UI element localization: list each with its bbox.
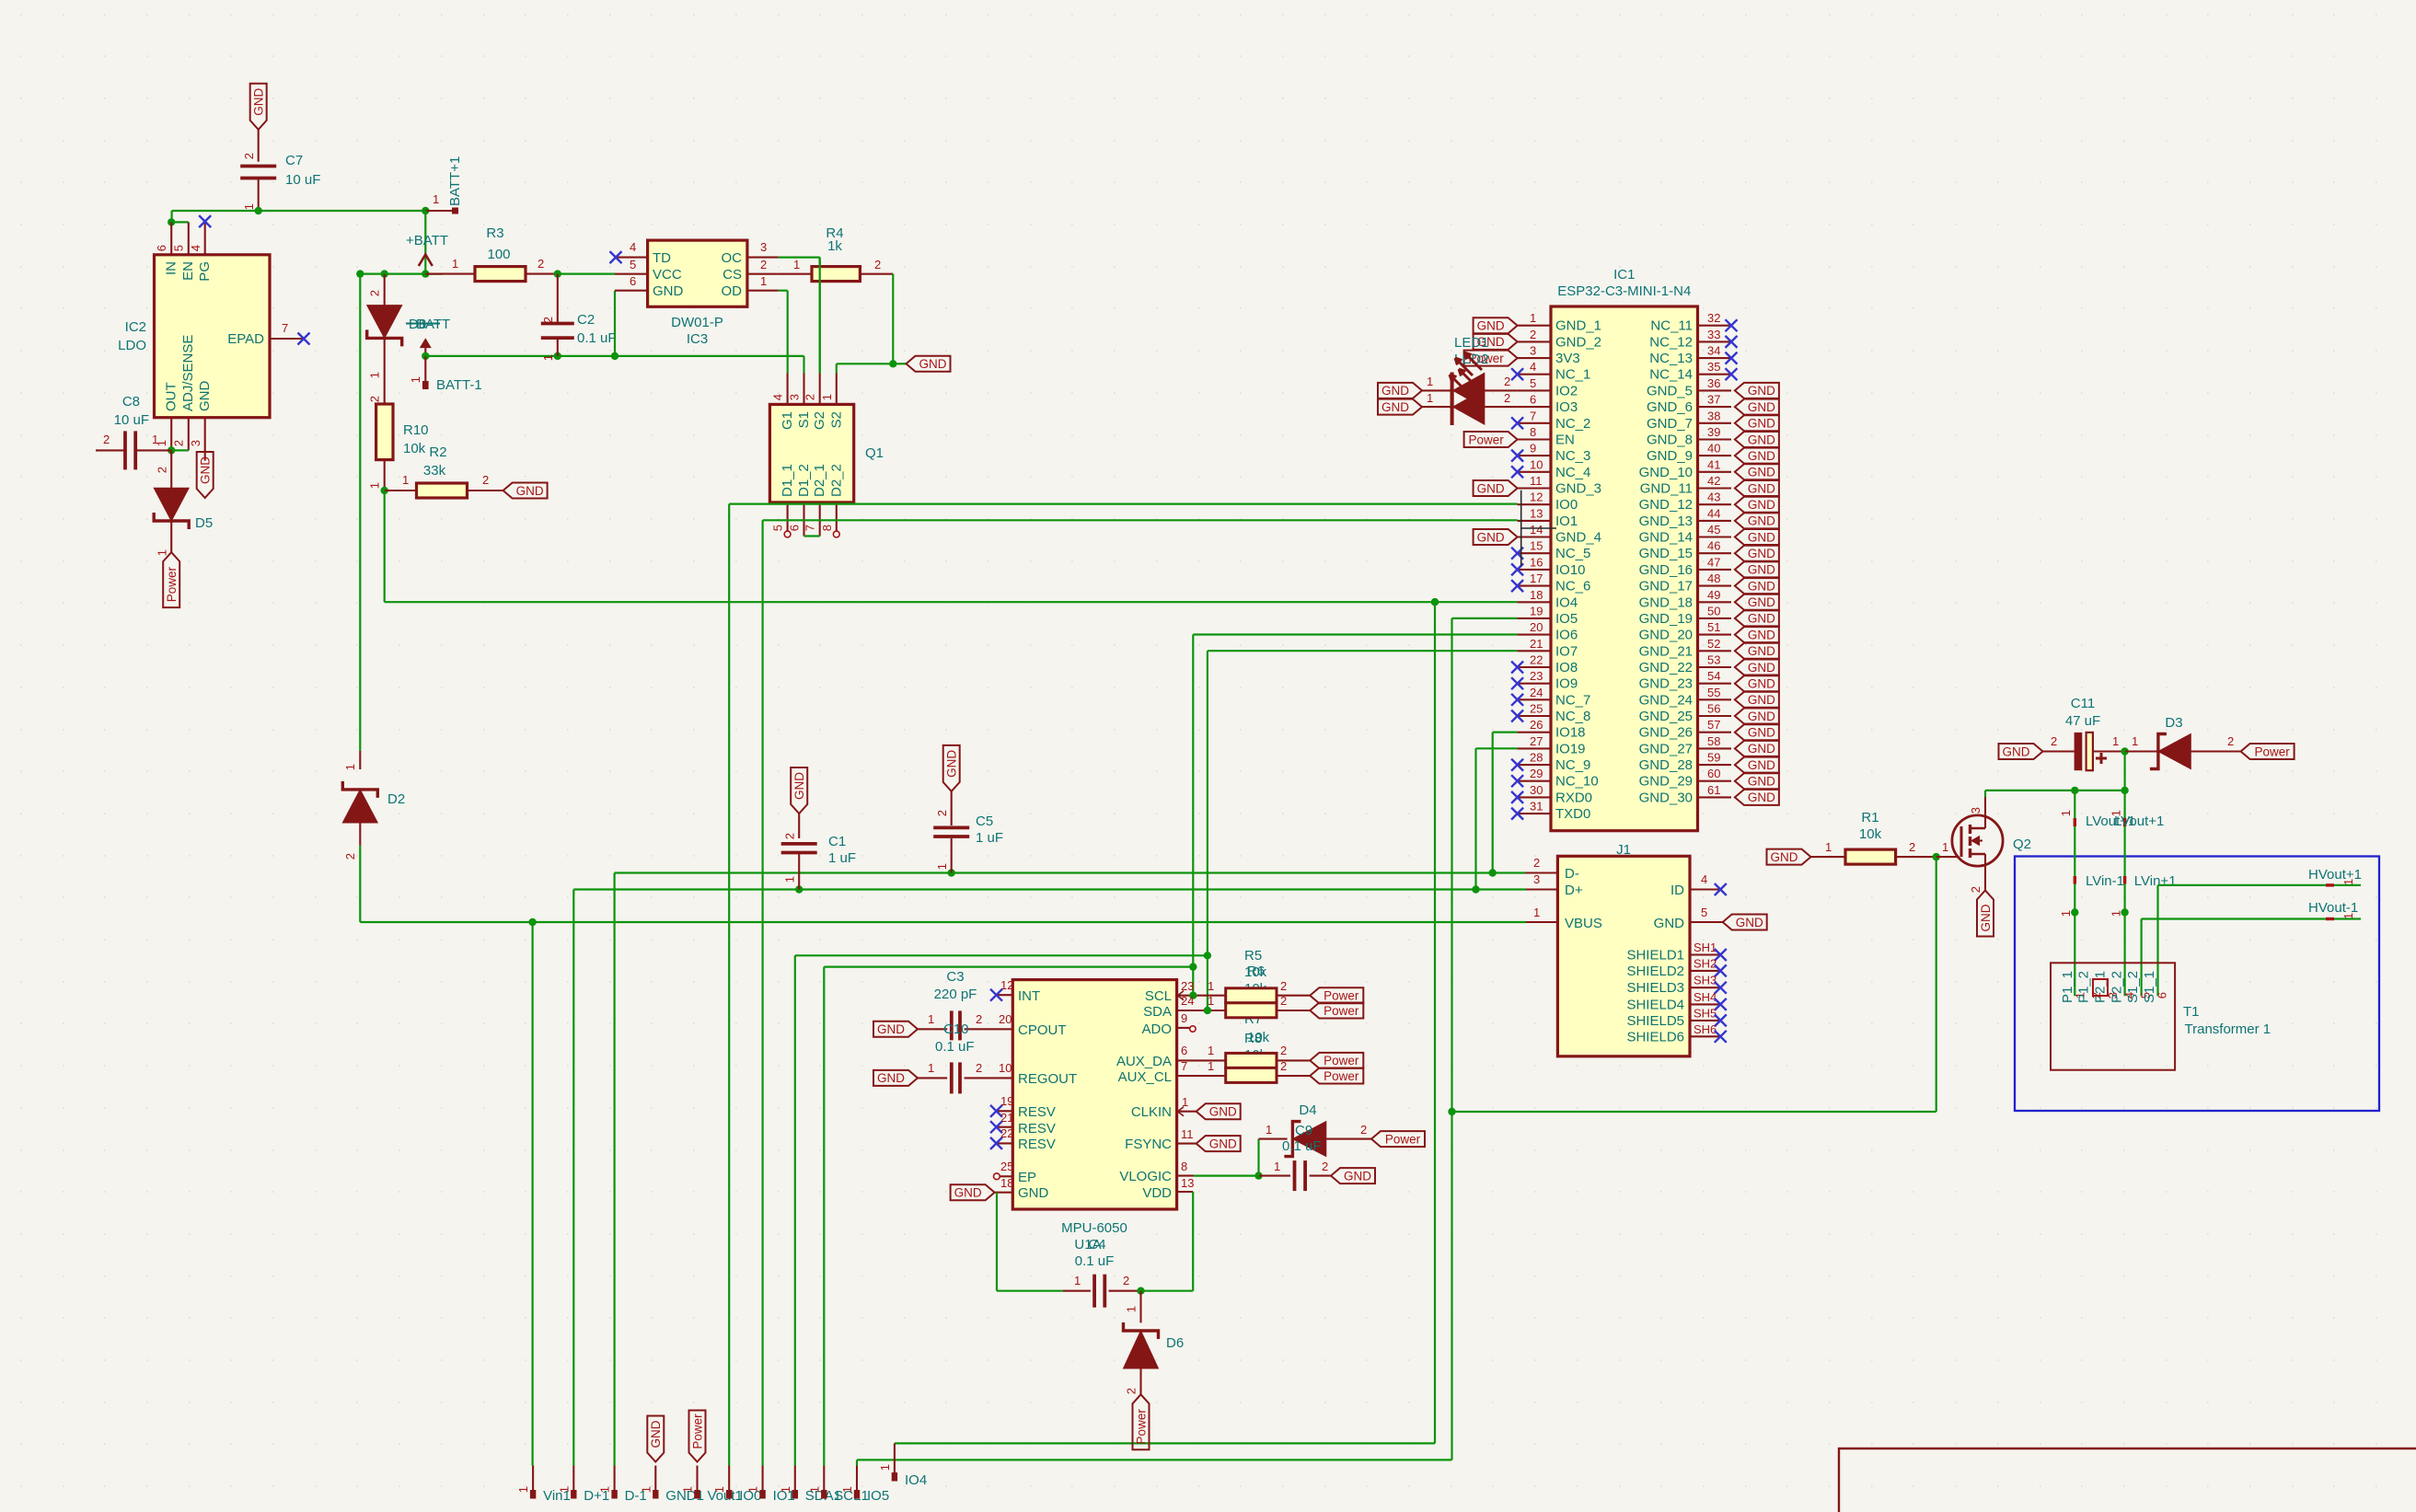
svg-text:Power: Power [1324, 1004, 1359, 1018]
Q2 pin2 source [1984, 854, 1986, 891]
svg-text:39: 39 [1707, 425, 1720, 439]
svg-text:2: 2 [976, 1061, 982, 1075]
IC3 pin2 CS stub [747, 273, 779, 275]
svg-text:GND_11: GND_11 [1640, 481, 1693, 497]
svg-text:GND: GND [1748, 710, 1775, 723]
power flag GND (MPU pin18) [951, 1184, 995, 1200]
svg-text:18: 18 [1000, 1176, 1013, 1190]
junction LVout+1 left [2071, 787, 2078, 794]
J1 pin SH6 SHIELD6 [1690, 1035, 1720, 1037]
power flag GND (IC1 pin1) [1474, 317, 1518, 333]
svg-text:11: 11 [1181, 1127, 1194, 1141]
svg-text:D2_2: D2_2 [828, 464, 844, 497]
IC1 pin 45 GND_14 [1698, 536, 1732, 537]
power flag GND (IC1 pin 46) [1735, 546, 1779, 561]
svg-text:NC_7: NC_7 [1555, 692, 1590, 708]
J1 pin SH4 SHIELD4 [1690, 1003, 1720, 1005]
svg-text:IO3: IO3 [1555, 399, 1578, 415]
title block border [1839, 1449, 2416, 1512]
IC1 pin 17 NC_6 [1518, 585, 1551, 587]
svg-text:1: 1 [1427, 391, 1433, 405]
svg-text:D1_1: D1_1 [780, 464, 795, 497]
svg-text:IO5: IO5 [1555, 611, 1578, 627]
J1 pin1 VBUS [1526, 921, 1557, 923]
svg-text:NC_14: NC_14 [1649, 367, 1693, 383]
svg-text:D1_2: D1_2 [796, 464, 812, 497]
svg-text:4: 4 [1701, 872, 1707, 886]
IC1 pin 57 GND_26 [1698, 732, 1732, 733]
svg-text:34: 34 [1707, 344, 1720, 358]
svg-text:22: 22 [1530, 653, 1543, 667]
svg-text:1: 1 [840, 1486, 854, 1493]
wire BATT- rail [425, 355, 803, 357]
svg-text:0.1 uF: 0.1 uF [577, 330, 617, 346]
svg-text:GND: GND [197, 381, 213, 412]
svg-text:SH3: SH3 [1694, 974, 1717, 987]
wire R4 pin2 to GND [892, 274, 894, 364]
svg-text:GND: GND [252, 88, 266, 116]
svg-text:1: 1 [242, 203, 256, 210]
svg-text:35: 35 [1707, 360, 1720, 374]
cursor crosshair artifact [1520, 491, 1522, 567]
svg-text:1: 1 [452, 257, 458, 271]
svg-text:GND: GND [1477, 481, 1505, 495]
svg-text:2: 2 [368, 290, 382, 296]
svg-text:2: 2 [1360, 1123, 1367, 1137]
svg-text:IO9: IO9 [1555, 676, 1578, 692]
svg-text:SH4: SH4 [1694, 990, 1717, 1004]
IC3 pin3 OC stub [747, 257, 779, 259]
diode D8 (zener, +BATT to R10) [384, 274, 386, 306]
junction C7/bus [255, 207, 262, 214]
LED LED2 [1378, 399, 1422, 415]
svg-text:43: 43 [1707, 491, 1720, 504]
svg-text:R5: R5 [1244, 948, 1262, 964]
power flag GND (IC1 pin 61) [1735, 790, 1779, 805]
svg-text:2: 2 [803, 394, 817, 400]
svg-text:GND_2: GND_2 [1555, 334, 1601, 350]
svg-text:R3: R3 [486, 225, 503, 241]
MPU pin12 INT with no-connect [997, 994, 1013, 996]
MPU pin8 VLOGIC [1177, 1175, 1195, 1177]
svg-text:GND_1: GND_1 [1555, 318, 1601, 334]
MPU pin21 RESV no-connect [997, 1126, 1013, 1128]
svg-text:VLOGIC: VLOGIC [1119, 1169, 1172, 1184]
IC1 pin 29 NC_10 [1518, 780, 1551, 782]
svg-text:PG: PG [197, 261, 213, 282]
power flag GND (Q1 S2) [907, 356, 951, 372]
wire OC to Q1 G2 [779, 257, 820, 259]
IC U1 MPU-6050 body [1012, 980, 1176, 1209]
junction SCL1 [1189, 963, 1196, 970]
svg-text:1: 1 [2059, 810, 2073, 816]
power flag GND (IC1 pin 39) [1735, 432, 1779, 447]
svg-text:IO6: IO6 [1555, 628, 1578, 643]
Q1 pin7 D2_1 stub [819, 502, 821, 537]
power flag GND (C11) [1999, 744, 2043, 759]
svg-text:G2: G2 [812, 411, 827, 430]
svg-text:GND_29: GND_29 [1639, 774, 1693, 790]
capacitor C5 [951, 791, 953, 825]
svg-text:GND_22: GND_22 [1639, 660, 1693, 675]
svg-text:59: 59 [1707, 751, 1720, 765]
MPU pin6 AUX_DA [1177, 1059, 1226, 1061]
IC1 pin 54 GND_23 [1698, 683, 1732, 685]
IC1 pin 34 NC_13 [1698, 357, 1732, 359]
svg-text:2: 2 [1280, 979, 1287, 993]
IC1 pin 48 GND_17 [1698, 585, 1732, 587]
svg-text:GND_8: GND_8 [1647, 433, 1693, 448]
node BATT-1 (hierarchical pin) [420, 338, 432, 348]
svg-text:1: 1 [516, 1486, 530, 1493]
Q1 pin4 G1 stub [787, 374, 789, 405]
svg-text:1: 1 [2341, 879, 2355, 885]
svg-text:GND: GND [1748, 417, 1775, 431]
MPU pin9 ADO [1177, 1027, 1190, 1029]
J1 pin4 ID with no-connect [1690, 888, 1720, 890]
svg-text:7: 7 [1530, 409, 1536, 422]
svg-text:57: 57 [1707, 718, 1720, 732]
power flag GND (IC1 pin2) + LED1 ref [1474, 334, 1518, 350]
IC1 pin 52 GND_21 [1698, 650, 1732, 652]
wire GND pin18 down to C4 [996, 1193, 998, 1291]
IC1 pin 47 GND_16 [1698, 569, 1732, 571]
svg-text:8: 8 [1530, 425, 1536, 439]
svg-text:55: 55 [1707, 686, 1720, 699]
svg-text:1: 1 [557, 1486, 571, 1493]
wire VLOGIC [1194, 1174, 1258, 1176]
svg-text:GND: GND [1748, 693, 1775, 707]
svg-text:GND: GND [945, 750, 959, 778]
wire IO18 net (to USB D-) [1493, 731, 1518, 733]
svg-text:9: 9 [1530, 442, 1536, 456]
MPU pin1 CLKIN [1177, 1111, 1196, 1113]
Q1 pin3 S1 stub [803, 374, 804, 405]
svg-text:R6: R6 [1247, 964, 1265, 979]
svg-text:GND: GND [1209, 1105, 1237, 1119]
power flag GND (IC1 pin 42) [1735, 480, 1779, 496]
IC1 pin 14 GND_4 [1518, 536, 1551, 537]
svg-text:D2_1: D2_1 [812, 464, 827, 497]
svg-text:D5: D5 [195, 515, 213, 531]
svg-text:1: 1 [820, 394, 834, 400]
IC1 pin 53 GND_22 [1698, 666, 1732, 668]
svg-text:C1: C1 [828, 834, 846, 849]
Q1 pin1 S2 stub [836, 374, 838, 405]
IC1 pin 19 IO5 [1518, 617, 1551, 619]
svg-text:Q2: Q2 [2013, 837, 2031, 852]
IC3 pin1 OD stub [747, 290, 779, 292]
svg-text:EN: EN [1555, 433, 1575, 448]
svg-text:2: 2 [783, 833, 797, 839]
svg-text:7: 7 [282, 321, 288, 335]
IC1 pin 8 EN [1518, 438, 1551, 440]
svg-text:1: 1 [935, 863, 949, 870]
svg-text:EN: EN [180, 261, 196, 281]
IC1 pin 15 NC_5 [1518, 552, 1551, 554]
power flag Power (D3) [2241, 744, 2295, 759]
svg-text:1: 1 [1274, 1160, 1280, 1173]
node Vout1 + power flag Power [689, 1411, 706, 1462]
power flag GND (C5) [943, 745, 960, 791]
svg-text:2: 2 [760, 258, 767, 271]
svg-text:3: 3 [189, 440, 202, 446]
svg-text:1: 1 [2132, 734, 2138, 748]
power flag GND (IC1 pin 52) [1735, 643, 1779, 659]
svg-text:GND: GND [1748, 400, 1775, 414]
svg-text:2: 2 [541, 317, 555, 323]
IC2 pin 1 OUT stub [170, 418, 172, 451]
svg-text:50: 50 [1707, 604, 1720, 617]
svg-text:1: 1 [1208, 1059, 1214, 1073]
svg-text:6: 6 [1181, 1044, 1187, 1057]
junction R3/C2/VCC [554, 270, 561, 277]
IC1 pin 60 GND_29 [1698, 780, 1732, 782]
junction LVout+1 right [2121, 787, 2128, 794]
svg-text:BATT+1: BATT+1 [447, 156, 463, 206]
IC1 pin 51 GND_20 [1698, 634, 1732, 636]
svg-text:GND_18: GND_18 [1639, 594, 1693, 610]
svg-text:GND_23: GND_23 [1639, 676, 1693, 692]
svg-text:5: 5 [771, 525, 785, 531]
node D+1 [572, 1466, 574, 1493]
svg-text:OC: OC [722, 250, 743, 266]
junction Vin1/VBUS [528, 918, 536, 926]
power flag GND (IC1 pin 48) [1735, 578, 1779, 594]
svg-text:GND: GND [1748, 466, 1775, 479]
power flag GND (IC1 pin 53) [1735, 660, 1779, 675]
svg-text:CPOUT: CPOUT [1018, 1022, 1067, 1038]
svg-text:NC_6: NC_6 [1555, 579, 1590, 594]
svg-text:MPU-6050: MPU-6050 [1061, 1220, 1127, 1236]
svg-text:1: 1 [1533, 906, 1540, 919]
svg-text:6: 6 [2155, 992, 2168, 998]
svg-text:1: 1 [1427, 375, 1433, 388]
svg-text:GND: GND [1748, 514, 1775, 528]
power flag GND (C1) [791, 768, 807, 814]
svg-text:2: 2 [976, 1012, 982, 1026]
node IO4 [894, 1443, 896, 1472]
svg-text:NC_1: NC_1 [1555, 367, 1590, 383]
svg-text:2: 2 [1280, 1044, 1287, 1057]
svg-text:GND_16: GND_16 [1639, 562, 1693, 578]
svg-text:GND_27: GND_27 [1639, 741, 1693, 756]
svg-text:54: 54 [1707, 669, 1720, 683]
MPU pin22 RESV no-connect [997, 1142, 1013, 1144]
svg-text:32: 32 [1707, 311, 1720, 325]
svg-text:RESV: RESV [1018, 1137, 1056, 1152]
svg-text:GND: GND [877, 1022, 905, 1036]
svg-text:2: 2 [1969, 886, 1983, 893]
power flag GND (R2 pin2) [503, 483, 548, 499]
power flag GND (IC1 pin 57) [1735, 724, 1779, 740]
J1 pin3 D+ [1526, 888, 1557, 890]
svg-text:51: 51 [1707, 620, 1720, 634]
svg-text:53: 53 [1707, 653, 1720, 667]
svg-text:1: 1 [156, 549, 169, 556]
svg-text:1: 1 [433, 192, 439, 206]
svg-text:GND: GND [877, 1071, 905, 1085]
capacitor C7 [240, 165, 276, 168]
svg-text:IO4: IO4 [905, 1472, 927, 1488]
IC1 pin 2 GND_2 [1518, 340, 1551, 342]
svg-text:27: 27 [1530, 734, 1543, 748]
IC1 pin 27 IO19 [1518, 747, 1551, 749]
svg-text:GND: GND [1748, 677, 1775, 691]
power flag GND (IC1 pin 55) [1735, 692, 1779, 708]
MPU pin11 FSYNC [1177, 1143, 1196, 1145]
wire Q2 drain to LVout [1985, 790, 2125, 791]
svg-text:1: 1 [760, 274, 767, 288]
wire LVout+1 left leg [2074, 791, 2075, 996]
svg-text:10 uF: 10 uF [285, 172, 320, 188]
svg-text:NC_8: NC_8 [1555, 709, 1590, 724]
IC1 pin 33 NC_12 [1698, 340, 1732, 342]
svg-text:28: 28 [1530, 751, 1543, 765]
svg-text:GND: GND [1748, 775, 1775, 789]
resistor R10 [376, 404, 393, 460]
svg-text:GND: GND [1771, 850, 1798, 864]
power flag GND (IC1 pin 54) [1735, 675, 1779, 691]
svg-text:AUX_DA: AUX_DA [1116, 1054, 1172, 1069]
IC2 pin 2 ADJ stub [188, 418, 190, 451]
svg-text:GND_21: GND_21 [1639, 643, 1693, 659]
wire bridge pin6-pin5 [171, 221, 189, 223]
svg-text:1: 1 [878, 1464, 892, 1471]
svg-text:VBUS: VBUS [1565, 916, 1602, 931]
svg-text:LED1: LED1 [1454, 335, 1489, 351]
svg-text:5: 5 [630, 258, 636, 271]
svg-text:CS: CS [722, 267, 742, 283]
wire S1 to BATT- rail [803, 356, 804, 374]
svg-text:4: 4 [630, 240, 636, 254]
svg-text:GND: GND [1748, 742, 1775, 756]
IC1 pin 11 GND_3 [1518, 487, 1551, 489]
svg-text:5: 5 [1530, 376, 1536, 390]
svg-text:1: 1 [1530, 311, 1536, 325]
svg-text:CLKIN: CLKIN [1131, 1104, 1172, 1120]
svg-text:1: 1 [2059, 910, 2073, 917]
wire IO5 to Q2 gate [1452, 1111, 1936, 1113]
svg-text:4: 4 [1530, 360, 1536, 374]
power flag GND (top of C7) [250, 84, 267, 130]
svg-text:IC1: IC1 [1613, 267, 1635, 283]
IC1 pin 20 IO6 [1518, 634, 1551, 636]
svg-text:NC_9: NC_9 [1555, 757, 1590, 773]
power flag GND (FSYNC) [1196, 1136, 1241, 1151]
svg-text:SCL: SCL [1145, 988, 1172, 1004]
power flag GND (IC1 pin 36) [1735, 383, 1779, 398]
svg-text:GND_28: GND_28 [1639, 757, 1693, 773]
svg-text:GND_19: GND_19 [1639, 611, 1693, 627]
svg-text:IN: IN [164, 261, 179, 275]
svg-text:Power: Power [690, 1414, 704, 1449]
svg-text:IC3: IC3 [687, 331, 708, 347]
Q1 pin8 D2_2 stub [836, 502, 838, 531]
svg-text:ESP32-C3-MINI-1-N4: ESP32-C3-MINI-1-N4 [1557, 283, 1691, 299]
svg-text:GND_10: GND_10 [1639, 465, 1693, 480]
IC1 pin 36 GND_5 [1698, 389, 1732, 391]
capacitor C1 [798, 814, 800, 838]
wire +BATT rail [360, 273, 443, 275]
capacitor C4 (under MPU) [1063, 1290, 1091, 1292]
svg-text:GND: GND [1748, 384, 1775, 398]
svg-text:2: 2 [242, 153, 256, 159]
svg-text:17: 17 [1530, 571, 1543, 585]
svg-text:GND: GND [954, 1186, 982, 1200]
svg-text:60: 60 [1707, 767, 1720, 780]
svg-text:SH5: SH5 [1694, 1006, 1717, 1020]
wire IO5 net [1452, 617, 1518, 619]
node GND1 + power flag GND [647, 1416, 664, 1462]
wire HVout+1 [2158, 884, 2362, 886]
svg-text:GND_14: GND_14 [1639, 530, 1693, 546]
junction D8 top [381, 270, 388, 277]
svg-text:GND_25: GND_25 [1639, 709, 1693, 724]
svg-text:GND_7: GND_7 [1647, 416, 1693, 432]
svg-text:42: 42 [1707, 474, 1720, 488]
MPU pin18 GND [995, 1192, 1013, 1194]
IC2 pin 4 stub with no-connect [204, 222, 206, 255]
svg-text:RESV: RESV [1018, 1121, 1056, 1137]
power flag GND (IC1 pin 49) [1735, 594, 1779, 610]
sheet box (blue) [2015, 857, 2379, 1112]
svg-text:C10: C10 [943, 1021, 969, 1037]
svg-text:15: 15 [1530, 539, 1543, 553]
MPU pin7 AUX_CL [1177, 1075, 1226, 1077]
svg-text:GND_15: GND_15 [1639, 546, 1693, 561]
wire SDA1 riser [794, 955, 796, 1465]
IC1 pin 41 GND_10 [1698, 471, 1732, 473]
svg-text:DW01-P: DW01-P [671, 315, 723, 330]
svg-text:24: 24 [1530, 686, 1543, 699]
svg-text:GND_26: GND_26 [1639, 725, 1693, 741]
svg-text:GND: GND [2003, 744, 2030, 758]
svg-text:1: 1 [746, 1486, 760, 1493]
svg-text:SH1: SH1 [1694, 941, 1717, 954]
IC1 pin 16 IO10 [1518, 569, 1551, 571]
svg-text:GND: GND [1748, 612, 1775, 626]
junction C4/D6/VDD [1137, 1287, 1144, 1295]
svg-text:1: 1 [928, 1012, 934, 1026]
svg-text:BATT-1: BATT-1 [436, 377, 482, 393]
wire C7 pin1 to bus [258, 179, 260, 212]
svg-text:C8: C8 [122, 394, 140, 410]
MPU pin10 REGOUT [997, 1077, 1013, 1079]
svg-text:9: 9 [1181, 1011, 1187, 1025]
hierarchical pin HVout+1 [2326, 883, 2334, 886]
IC1 pin 37 GND_6 [1698, 406, 1732, 408]
svg-text:GND: GND [1748, 579, 1775, 593]
svg-text:11: 11 [1530, 474, 1543, 488]
wire D+ rail [573, 888, 1526, 890]
svg-text:GND: GND [919, 357, 947, 371]
IC2 pin 6 stub [170, 222, 172, 254]
J1 pin2 D- [1525, 871, 1557, 873]
svg-text:GND: GND [199, 456, 213, 484]
svg-text:IC2: IC2 [125, 319, 146, 335]
IC1 pin 46 GND_15 [1698, 552, 1732, 554]
capacitor C9 [1259, 1175, 1291, 1177]
svg-text:LVin+1: LVin+1 [2134, 873, 2177, 889]
IC1 pin 12 IO0 [1518, 503, 1551, 505]
wire IO0 net [729, 502, 1517, 504]
power flag GND (IC1 pin 60) [1735, 773, 1779, 789]
IC1 pin 13 IO1 [1518, 520, 1551, 522]
svg-text:40: 40 [1707, 442, 1720, 456]
wire down to IC2 pin6 [171, 211, 173, 222]
svg-text:13: 13 [1530, 506, 1543, 520]
